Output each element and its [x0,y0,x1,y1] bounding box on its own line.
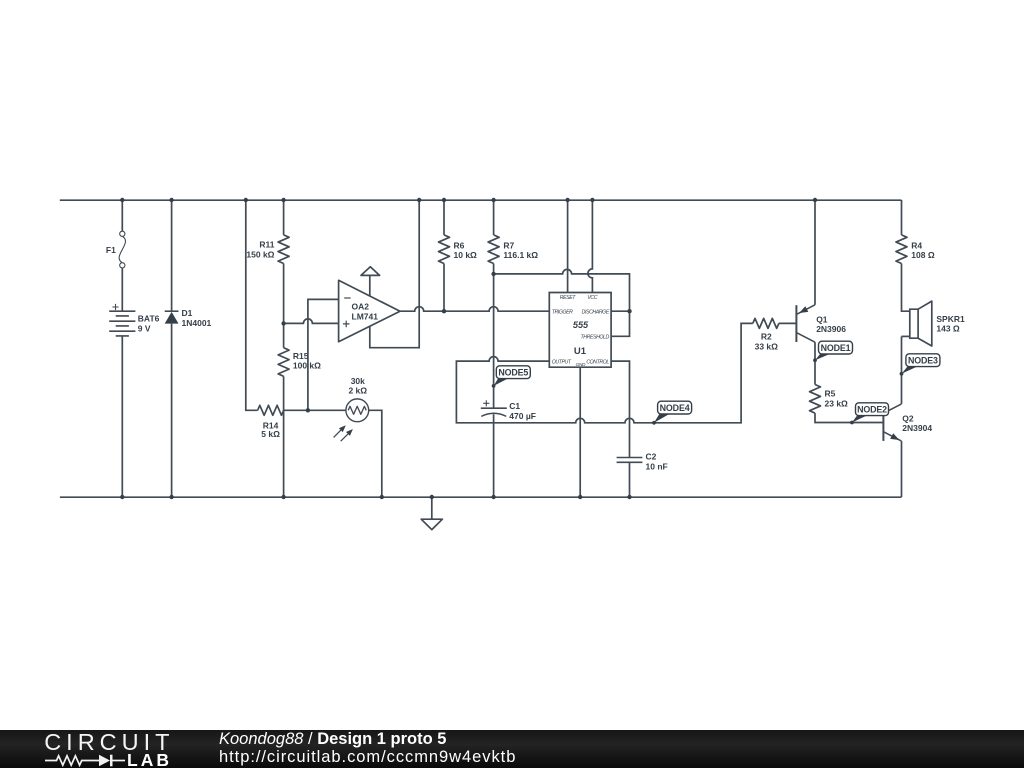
svg-text:33 kΩ: 33 kΩ [755,341,779,351]
wire battery column top [121,200,123,231]
speaker SPKR1 [910,309,918,338]
resistor R11 [278,235,289,264]
svg-text:9 V: 9 V [138,324,151,334]
wire diode column top [171,200,173,311]
svg-text:R6: R6 [454,240,465,250]
svg-text:1N4001: 1N4001 [182,318,212,328]
wire Q2 emitter to rail corner [901,441,903,497]
wire Q2 collector to speaker [901,336,903,404]
wire LDR row down to rail [283,410,285,497]
junction dot R11 bottom [281,321,285,325]
svg-text:U1: U1 [574,346,587,357]
wire diode to bottom rail [171,324,173,497]
capacitor C2 [617,458,643,463]
svg-text:150 kΩ: 150 kΩ [246,249,274,259]
svg-text:LAB: LAB [127,750,172,768]
wire Q1 collector to R5 [814,342,816,384]
wire 555 output routing [456,323,752,422]
svg-text:NODE1: NODE1 [821,343,851,353]
wire control pin to C2 [611,361,629,457]
svg-text:108 Ω: 108 Ω [911,250,935,260]
wire R15 to LDR row [283,376,285,410]
wire rail to R4 [901,200,903,235]
wire op-amp Vminus loop [370,200,419,348]
wire R11 to R15 [283,264,285,348]
node NODE4 [652,421,656,425]
resistor R4 [896,235,907,264]
svg-text:2N3906: 2N3906 [816,324,846,334]
junction dot discharge [627,309,631,313]
battery BAT6 [109,311,135,336]
wire R7 down to C1 [493,264,495,409]
op-amp plus sign [343,321,350,328]
svg-text:R11: R11 [259,240,274,250]
svg-text:LM741: LM741 [352,311,379,321]
wire bottom ground rail [60,496,902,498]
svg-text:OA2: OA2 [352,302,370,312]
svg-text:TRIGGER: TRIGGER [552,310,573,316]
resistor R15 [278,348,289,377]
ground [421,497,442,530]
svg-text:OUTPUT: OUTPUT [552,360,572,366]
svg-text:THRESHOLD: THRESHOLD [580,335,609,341]
svg-text:2N3904: 2N3904 [902,423,932,433]
svg-text:RESET: RESET [560,295,577,301]
wire rail to R14 [246,200,258,410]
node NODE5 [492,384,496,388]
svg-text:NODE5: NODE5 [498,367,528,377]
wire R4 to speaker [902,264,910,312]
svg-text:Q2: Q2 [902,413,914,423]
svg-text:10 nF: 10 nF [646,461,668,471]
capacitor C1 [481,407,507,409]
svg-text:R2: R2 [761,332,772,342]
resistor R7 [488,235,499,264]
wire R5 to Q2 base [815,413,883,422]
svg-text:143 Ω: 143 Ω [936,324,960,334]
svg-text:F1: F1 [106,245,116,255]
svg-text:C1: C1 [509,401,520,411]
svg-text:BAT6: BAT6 [138,313,160,323]
wire C1 to bottom rail [493,414,495,497]
resistor R6 [439,235,450,264]
node NODE3 [900,372,904,376]
photoresistor light arrows [334,430,348,441]
svg-text:100 kΩ: 100 kΩ [293,361,321,371]
svg-text:R4: R4 [911,240,922,250]
transistor Q1 [795,305,797,342]
svg-text:NODE3: NODE3 [908,355,938,365]
svg-text:2 kΩ: 2 kΩ [348,385,367,395]
resistor R5 [810,385,821,414]
diode D1 [165,310,179,312]
svg-text:R5: R5 [825,389,836,399]
wire op-amp output [400,307,549,312]
svg-text:470 µF: 470 µF [509,411,536,421]
wire gnd pin to rail [579,367,581,497]
svg-text:C2: C2 [646,452,657,462]
svg-text:R15: R15 [293,351,309,361]
node NODE1 [813,358,817,362]
wire vcc pin to rail with hop [588,200,593,293]
svg-text:CONTROL: CONTROL [586,360,609,366]
wire R2 to Q1 base [779,322,797,324]
IC U1 555 box [549,293,611,368]
wire noninverting input with hop [284,319,339,323]
svg-text:Q1: Q1 [816,314,828,324]
wire rail to R7 [493,200,495,235]
op-amp VCC arrow [361,267,380,276]
svg-text:VCC: VCC [587,295,597,301]
junction dot feedback [306,408,310,412]
op-amp minus sign [344,297,351,299]
wire LDR right [369,410,382,497]
junction dot R7 tap [491,272,495,276]
wire battery to bottom rail [121,336,123,497]
op-amp OA2 triangle [339,280,400,342]
wire Q1 emitter to rail [814,200,816,305]
logo resistor-diode glyph [45,755,125,764]
wire top supply rail [60,199,902,201]
svg-text:NODE2: NODE2 [857,404,887,414]
photoresistor 30k [346,399,369,422]
svg-text:555: 555 [573,320,589,330]
wire R7 to discharge-threshold [494,269,630,336]
junction dots bottom rail [120,495,124,499]
wire inverting input [308,299,339,410]
wire R6 to output [443,264,445,312]
svg-text:R7: R7 [503,240,514,250]
wire rail to R11 [283,200,285,235]
resistor R2 [753,318,779,328]
svg-text:NODE4: NODE4 [660,403,690,413]
svg-text:23 kΩ: 23 kΩ [825,398,849,408]
wire rail to R6 [443,200,445,235]
svg-text:DISCHARGE: DISCHARGE [582,310,610,316]
node NODE2 [850,421,854,425]
wire reset pin to rail [567,200,569,293]
svg-text:30k: 30k [351,376,365,386]
resistor R14 [258,405,284,415]
svg-text:10 kΩ: 10 kΩ [454,250,478,260]
svg-text:5 kΩ: 5 kΩ [261,429,280,439]
svg-text:116.1 kΩ: 116.1 kΩ [503,250,538,260]
wire C2 to bottom rail [629,462,631,497]
junction dot R6 output [442,309,446,313]
transistor Q2 [882,404,884,441]
junction dots top rail [120,198,124,202]
wire speaker bottom [902,335,910,337]
wire fuse to battery [121,268,123,311]
wire discharge pin [611,310,629,312]
svg-text:D1: D1 [182,308,193,318]
svg-text:SPKR1: SPKR1 [936,314,965,324]
fuse F1 [119,231,125,268]
wire R14 to LDR [284,409,346,411]
